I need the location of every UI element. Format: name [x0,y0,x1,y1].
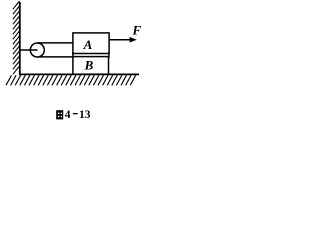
svg-text:A: A [83,37,93,52]
svg-text:F: F [131,22,141,37]
svg-text:4: 4 [65,109,71,121]
svg-text:B: B [84,57,94,72]
svg-text:13: 13 [79,109,91,121]
